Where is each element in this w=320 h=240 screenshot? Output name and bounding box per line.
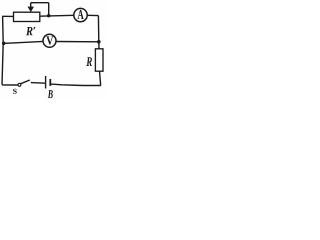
wire right vertical upper xyxy=(97,16,99,42)
label R' xyxy=(26,27,33,35)
wire rheostat left lead xyxy=(2,15,13,17)
label A xyxy=(78,10,84,19)
voltmeter V xyxy=(43,34,56,47)
wire voltmeter left branch xyxy=(3,41,43,43)
wire switch fixed contact to battery xyxy=(31,82,45,85)
rheostat R' body xyxy=(14,12,40,21)
label S xyxy=(13,89,17,94)
wire voltmeter right branch xyxy=(56,41,99,43)
label R xyxy=(86,57,92,66)
battery B long thin plate xyxy=(45,76,47,89)
wire rheostat right lead to ammeter xyxy=(40,14,74,17)
wire ammeter to top-right corner xyxy=(87,14,98,16)
wire bottom left segment xyxy=(2,84,18,86)
switch S blade xyxy=(21,80,30,84)
ammeter A xyxy=(74,8,87,21)
wire slider drop to right lead xyxy=(48,3,50,16)
junction dot left xyxy=(2,42,6,46)
wire junction to resistor top xyxy=(98,42,100,49)
wire bottom right segment xyxy=(51,84,101,85)
wire slider top horizontal xyxy=(31,2,49,4)
label B xyxy=(48,90,53,98)
rheostat R' slider arrow xyxy=(28,3,35,12)
wire left vertical xyxy=(2,16,3,85)
switch S pivot xyxy=(18,83,21,86)
battery B short thick plate xyxy=(49,79,51,86)
junction dot slider/right lead xyxy=(47,14,50,17)
resistor R body xyxy=(95,49,103,71)
junction dot right xyxy=(97,40,101,44)
wire resistor bottom to corner xyxy=(100,71,101,85)
label V xyxy=(46,36,53,44)
